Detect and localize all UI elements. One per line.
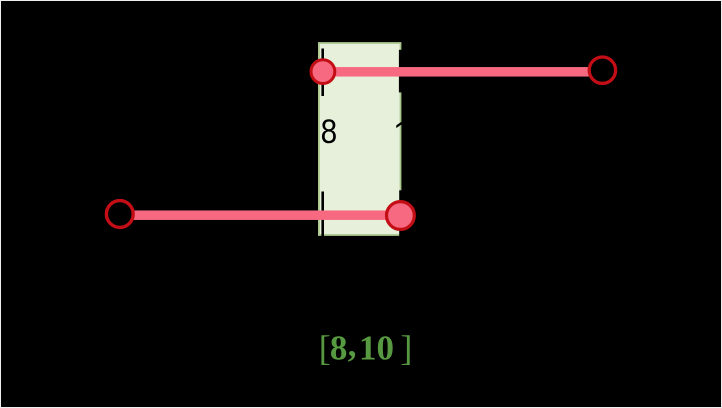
tick 10 bottom row bbox=[399, 190, 402, 238]
segment top row bbox=[321, 67, 590, 77]
closed endpoint at 8 top bbox=[311, 60, 335, 84]
tick 8 bottom row bbox=[321, 192, 324, 238]
tick 10 top row bbox=[399, 50, 403, 93]
svg-text:8: 8 bbox=[321, 112, 338, 150]
answer label [8, 10] bbox=[319, 325, 413, 368]
svg-text:10: 10 bbox=[359, 329, 394, 368]
open endpoint at 15 top bbox=[589, 57, 615, 83]
svg-text:]: ] bbox=[400, 328, 412, 368]
open endpoint at 3 bottom bbox=[106, 201, 133, 228]
svg-text:8: 8 bbox=[330, 329, 348, 368]
svg-text:,: , bbox=[348, 325, 357, 364]
interval band [8,10] bbox=[319, 43, 401, 235]
label 8 top axis bbox=[321, 112, 338, 150]
closed endpoint at 10 bottom bbox=[387, 202, 415, 230]
segment bottom row bbox=[134, 210, 401, 220]
tick 8 top row bbox=[321, 49, 324, 97]
